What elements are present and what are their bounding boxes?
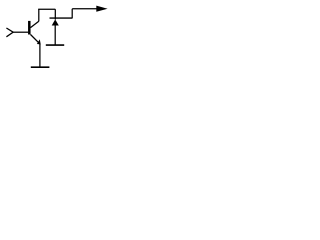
wire (collector riser) [38,9,40,21]
ground (right) [46,44,64,46]
wire (emitter to ground) [39,44,41,67]
transistor Q1 (NPN) [29,21,40,45]
node OUT (output arrow) [96,6,107,12]
wire (bump top) [38,8,55,10]
wire (right riser) [71,9,73,19]
ground (left) [31,66,50,68]
wire (top output) [72,8,97,10]
wire (base wire) [13,31,28,33]
node IN (input port arrow) [6,28,13,37]
wire (output net horizontal) [50,17,73,19]
wire (bump right leg) [54,9,56,19]
diode D1 (up arrow) [52,19,59,25]
wire (diode to ground) [54,25,56,45]
